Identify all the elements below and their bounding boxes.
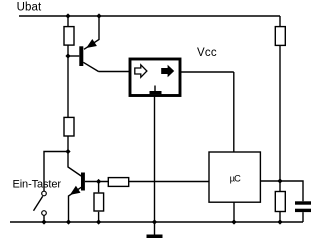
resistor R6 (sense divider bottom): [275, 192, 285, 212]
wire R5 to sense node: [279, 46, 281, 181]
wire Q1 collector to regulator input: [99, 71, 131, 73]
resistor R3 (pull-down): [94, 193, 104, 211]
wire uC ground pin: [233, 202, 235, 222]
junction bottom rail at uC ground: [231, 219, 236, 224]
wire node B to switch: [44, 152, 68, 192]
junction bottom rail at switch: [41, 219, 46, 224]
switch S1 Ein-Taster: [34, 191, 47, 222]
U1 internal ground pin symbol: [150, 86, 162, 95]
wire node A to Q1 base: [68, 55, 79, 57]
wire Vcc down to uC: [233, 72, 235, 152]
U1 output solid arrow: [161, 65, 174, 78]
junction bottom rail at R6: [277, 219, 282, 224]
junction top rail at Q1 emitter: [96, 13, 101, 18]
capacitor C1: [295, 201, 311, 212]
junction bottom rail at Q2 emitter: [66, 219, 71, 224]
wire Ubat to R1: [67, 16, 69, 26]
net label Vcc: [197, 47, 217, 59]
U1 input hollow arrow: [135, 65, 147, 78]
svg-text:µC: µC: [230, 173, 241, 183]
wire Ubat top rail: [19, 15, 280, 17]
wire Ubat rail down to R5: [279, 16, 281, 26]
junction top rail at R1: [65, 13, 70, 18]
wire node A to R2: [67, 56, 69, 117]
net label Ubat: [17, 2, 42, 14]
microcontroller U2 box: [209, 152, 260, 202]
junction bottom rail at U1 ground: [152, 219, 157, 224]
node A (Q1 base node): [65, 53, 70, 58]
svg-text:Ein-Taster: Ein-Taster: [13, 178, 62, 190]
wire R6 to bottom rail: [279, 212, 281, 222]
label Ein-Taster: [13, 178, 62, 190]
junction sense node: [277, 178, 282, 183]
svg-text:Vcc: Vcc: [197, 47, 217, 59]
wire Q2 base to junction: [85, 181, 108, 183]
wire C1 to bottom rail: [302, 212, 304, 222]
wire uC right pin to sense node: [260, 180, 280, 182]
resistor R1: [64, 27, 74, 45]
ground symbol: [147, 222, 163, 238]
svg-text:Ubat: Ubat: [17, 2, 42, 14]
resistor R4 (base series): [108, 178, 128, 187]
transistor Q1 (PNP): [79, 16, 99, 72]
wire R4 to uC: [129, 181, 209, 183]
wire U1 ground to bottom rail: [154, 97, 156, 223]
node B (switch / Q2 collector node): [65, 149, 70, 154]
wire sense node to R6: [279, 181, 281, 191]
wire R1 to node A: [67, 46, 69, 57]
wire R2 to node B: [67, 137, 69, 152]
wire U1 output to Vcc corner: [181, 71, 234, 73]
wire R3 to bottom rail: [98, 212, 100, 222]
resistor R2: [64, 117, 74, 136]
junction Q2 base node: [96, 179, 101, 184]
resistor R5 (sense divider top): [275, 27, 285, 46]
label uC: [230, 173, 241, 183]
voltage regulator U1 box: [130, 59, 180, 96]
wire sense node to capacitor: [280, 181, 303, 201]
transistor Q2 (NPN, mirrored): [68, 152, 85, 223]
wire ground bottom rail: [10, 221, 303, 223]
wire junction to R3: [98, 182, 100, 193]
junction bottom rail at R3: [96, 219, 101, 224]
